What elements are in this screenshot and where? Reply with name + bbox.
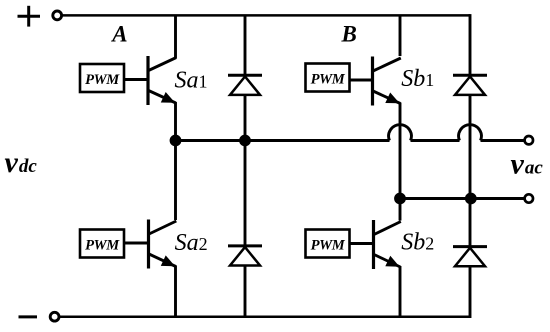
transistor Sb2 (switch): [374, 220, 401, 269]
wire node a to Sa2 collector: [174, 141, 177, 221]
terminal AC output 1: [525, 136, 533, 144]
transistor Sa2 (switch): [149, 220, 177, 269]
wire node b to diode D4 cathode: [469, 199, 472, 248]
PWM block for Sb2: [306, 230, 350, 258]
transistor Sa1 (switch): [148, 56, 176, 105]
wire Sb2 emitter to bottom rail: [399, 266, 402, 317]
minus sign (negative DC polarity): [19, 315, 38, 318]
plus sign (positive DC polarity): [18, 6, 41, 27]
svg-text:PWM: PWM: [85, 238, 120, 254]
terminal DC positive input: [53, 11, 62, 20]
wire to AC terminal 1: [481, 139, 525, 142]
wire bottom DC rail: [60, 315, 471, 318]
wire node b to Sb2 collector: [399, 199, 402, 221]
wire Sa1 emitter to node a: [174, 102, 177, 141]
wire PWM to Sb1 base: [350, 79, 373, 82]
wire top DC rail: [62, 14, 470, 17]
diode D2 (lower-left freewheel): [228, 246, 262, 266]
PWM block for Sa2: [80, 230, 124, 258]
svg-text:vac: vac: [511, 148, 544, 181]
wire diode D1 anode to node a: [244, 95, 247, 141]
diode D1 (upper-left freewheel): [228, 75, 262, 95]
svg-text:vdc: vdc: [5, 146, 38, 179]
wire PWM to Sa2 base: [124, 242, 148, 245]
wire node a to first hop: [176, 139, 390, 142]
svg-text:Sb1: Sb1: [401, 66, 434, 92]
wire Sa1 collector to top rail: [174, 15, 177, 58]
junction node b at diode leg: [465, 193, 477, 205]
wire diode D4 anode to bottom rail: [469, 266, 472, 318]
wire hop over right diode leg: [459, 125, 482, 141]
PWM block for Sa1: [80, 64, 124, 92]
svg-text:Sa1: Sa1: [175, 68, 208, 94]
transistor Sb1 (switch): [373, 57, 401, 106]
wire top rail to diode D1 cathode: [244, 15, 247, 76]
wire between hops: [411, 139, 460, 142]
wire Sa2 emitter to bottom rail: [174, 266, 177, 317]
junction node a at diode leg: [239, 135, 251, 147]
wire node a to diode D2 cathode: [244, 141, 247, 247]
svg-text:PWM: PWM: [311, 72, 346, 88]
wire node b to AC terminal 2: [400, 197, 524, 200]
diode D3 (upper-right freewheel): [453, 75, 487, 95]
wire PWM to Sa1 base: [124, 78, 147, 81]
PWM block for Sb1: [306, 64, 350, 92]
wire Sb1 emitter to node b (passes under hop): [399, 103, 402, 199]
wire top rail corner to diode D3 cathode: [469, 14, 472, 76]
svg-text:B: B: [341, 22, 357, 47]
junction node a at Sa leg: [170, 135, 182, 147]
svg-text:Sa2: Sa2: [175, 230, 208, 256]
wire diode D3 anode to node b (passes under hop): [469, 95, 472, 199]
terminal DC negative input: [50, 312, 59, 321]
svg-text:A: A: [110, 22, 127, 47]
wire diode D2 anode to bottom rail: [244, 266, 247, 317]
terminal AC output 2: [525, 194, 533, 202]
junction node b at Sb leg: [394, 193, 406, 205]
svg-text:Sb2: Sb2: [401, 230, 434, 256]
wire hop over Sb leg: [389, 125, 412, 141]
svg-text:PWM: PWM: [311, 238, 346, 254]
wire PWM to Sb2 base: [350, 242, 374, 245]
wire Sb1 collector to top rail: [399, 15, 402, 56]
svg-text:PWM: PWM: [85, 72, 120, 88]
diode D4 (lower-right freewheel): [453, 247, 487, 267]
